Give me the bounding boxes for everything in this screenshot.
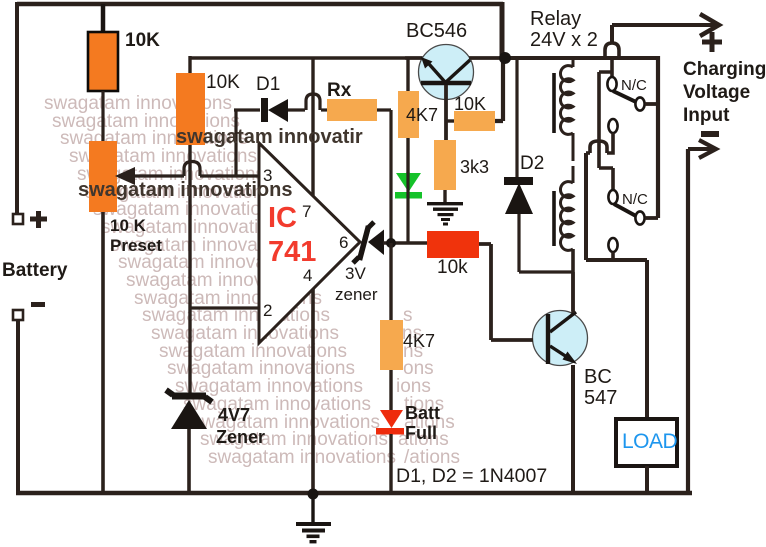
svg-text:Battery: Battery xyxy=(2,260,68,281)
svg-text:741: 741 xyxy=(268,236,316,268)
resistor R6 4K7 lower xyxy=(380,320,403,370)
wire: hop over rail xyxy=(605,43,619,58)
wire: D1 left lead xyxy=(234,108,260,111)
wire: D1 to Rx with hop over pin7 wire xyxy=(288,94,327,110)
wire: NC2 feed branch xyxy=(599,72,613,191)
wire: charging + input arrow xyxy=(612,14,719,42)
wire: R6 to LED xyxy=(389,370,392,410)
svg-text:Voltage: Voltage xyxy=(683,82,750,103)
svg-text:BC546: BC546 xyxy=(406,20,467,42)
svg-text:547: 547 xyxy=(584,387,617,409)
relay contact NC1 xyxy=(607,77,616,91)
wire: charging minus arrow xyxy=(688,140,716,158)
wire: coil link with gap xyxy=(572,133,575,183)
wire: battery minus to bottom rail xyxy=(16,320,20,493)
wire: into NC1 xyxy=(610,57,614,77)
svg-text:Input: Input xyxy=(683,105,730,126)
wire: pole1 to right bus xyxy=(645,102,658,106)
wire: Rx right lead down to node A xyxy=(377,110,391,243)
node: junction dot on rail xyxy=(499,52,511,64)
potentiometer 10K preset body xyxy=(89,141,117,212)
wire: node A down to R6 4K7 xyxy=(389,243,392,320)
svg-text:4K7: 4K7 xyxy=(403,331,435,351)
wire: left battery rail xyxy=(15,2,19,214)
node: ground junction dot xyxy=(308,489,319,500)
wire: rail to R3 4K7 upper xyxy=(406,58,409,91)
node: battery minus terminal xyxy=(13,310,23,320)
wire: top-right drop to junction xyxy=(500,2,505,58)
wire: top positive rail xyxy=(17,2,503,7)
svg-text:D2: D2 xyxy=(520,153,544,174)
relay pole contact 2 xyxy=(635,211,644,224)
LED batt full (red) xyxy=(376,410,404,435)
wire: preset bottom to ground rail xyxy=(101,212,105,493)
relay L2 core bar xyxy=(552,191,556,246)
resistor R5 3k3 xyxy=(434,140,456,190)
load box xyxy=(616,419,677,466)
wire: NO1 lead with hop over NC2 feed xyxy=(586,133,613,153)
svg-text:D1: D1 xyxy=(256,74,280,95)
relay L1 core bar xyxy=(552,73,556,133)
svg-text:Zener: Zener xyxy=(216,427,265,447)
op-amp U1 triangle xyxy=(259,143,360,343)
svg-text:10 K: 10 K xyxy=(110,216,147,235)
transistor Q2 internals xyxy=(548,312,577,364)
svg-text:Full: Full xyxy=(405,423,437,443)
rail through BC546 redrawn xyxy=(405,56,505,60)
svg-text:6: 6 xyxy=(339,233,348,252)
svg-text:10K: 10K xyxy=(454,94,486,114)
wire: op-amp pin 2 input xyxy=(190,306,259,309)
transistor Q1 internals xyxy=(421,57,471,83)
relay coil L1 xyxy=(560,58,573,134)
wire: R4 right up to junction xyxy=(495,58,503,121)
label: minus sign charging xyxy=(701,131,719,137)
resistor R2 10K vertical xyxy=(176,73,205,145)
svg-text:Preset: Preset xyxy=(110,236,162,255)
wire: D1 branch down to pin3 line xyxy=(234,110,237,176)
resistor R3 4K7 upper xyxy=(398,91,419,138)
resistor Rx xyxy=(327,99,377,121)
wire: R2 bottom / pin2 / zener chain vertical xyxy=(188,145,191,394)
svg-text:IC: IC xyxy=(268,202,297,234)
wire: 10K to Q1 base xyxy=(446,119,454,122)
wire: NO bus vertical xyxy=(584,153,588,260)
wire: lead to resistor R1 xyxy=(101,4,106,32)
LED green indicator xyxy=(395,173,422,199)
resistor R4 10K horizontal xyxy=(454,111,495,131)
svg-text:Batt: Batt xyxy=(405,403,440,423)
wire: zener to node A xyxy=(383,241,427,244)
transistor Q1 BC546 circle xyxy=(419,45,474,100)
label: plus sign battery xyxy=(30,211,47,228)
relay switch blade 2 xyxy=(614,204,636,216)
watermark light lines xyxy=(44,93,396,468)
wire: green LED to node A line xyxy=(406,172,409,243)
relay coil L2 xyxy=(560,182,573,251)
svg-text:10k: 10k xyxy=(437,257,468,278)
svg-text:zener: zener xyxy=(335,285,378,304)
relay contact NO2 xyxy=(608,238,617,252)
relay contact NO1 xyxy=(608,119,617,133)
relay switch blade 1 xyxy=(613,91,636,102)
wire: Q2 collector up xyxy=(571,272,575,313)
wire: NO2 lead down xyxy=(611,252,615,260)
svg-text:Relay: Relay xyxy=(530,8,581,30)
wiper arrowhead xyxy=(115,167,135,185)
wire: rail from R2 top (y58) xyxy=(190,56,505,59)
zener diode 3V at pin 6 xyxy=(353,222,384,263)
label: minus sign battery xyxy=(31,302,45,307)
wire: LED to bottom rail xyxy=(389,434,392,493)
transistor Q2 BC547 circle xyxy=(533,311,588,366)
wire: 4V7 to bottom rail xyxy=(187,429,191,493)
wire: R2 top lead xyxy=(188,56,191,73)
ground symbol bottom xyxy=(296,496,331,543)
svg-text:Rx: Rx xyxy=(327,80,352,101)
svg-text:D1, D2 = 1N4007: D1, D2 = 1N4007 xyxy=(396,465,547,487)
watermark right column fragments xyxy=(396,305,460,468)
resistor R1 10K (bordered orange) xyxy=(88,32,118,91)
svg-text:7: 7 xyxy=(302,202,311,221)
zener diode 4V7 xyxy=(166,390,212,429)
wire: D2 anode down and right xyxy=(519,214,573,272)
wire: 10k to Q2 base xyxy=(479,244,533,340)
svg-text:3V: 3V xyxy=(345,264,366,283)
wire: pin 4 to ground rail xyxy=(311,289,315,493)
wire: coil L2 bottom to collector junction xyxy=(571,249,575,311)
node A junction dot xyxy=(386,238,396,248)
svg-text:24V x 2: 24V x 2 xyxy=(530,29,598,51)
wire: load bottom to rail xyxy=(645,466,649,493)
resistor R7 10k red xyxy=(427,231,479,258)
svg-text:4: 4 xyxy=(303,266,312,285)
wire: bottom ground rail xyxy=(16,491,692,495)
relay pole contact 1 xyxy=(635,97,644,110)
wire: Q2 emitter to bottom rail xyxy=(571,365,575,493)
svg-text:N/C: N/C xyxy=(622,191,648,208)
wire: R1 to preset xyxy=(101,91,104,141)
ground symbol mid xyxy=(427,202,463,226)
wire: right rail down xyxy=(686,149,690,495)
svg-text:3k3: 3k3 xyxy=(460,157,489,177)
diode D1 xyxy=(261,98,268,122)
relay contact NC2 xyxy=(608,190,617,204)
wire: pole2 to right bus xyxy=(645,216,658,220)
diode D2 xyxy=(504,177,533,214)
wire: rail to D2 xyxy=(515,58,518,177)
label: plus sign charging xyxy=(702,32,722,52)
svg-text:10K: 10K xyxy=(125,30,160,51)
svg-text:4K7: 4K7 xyxy=(406,105,438,125)
wire: pin 7 to rail xyxy=(311,58,314,196)
svg-text:Charging: Charging xyxy=(683,59,766,80)
svg-text:swagatam innovations: swagatam innovations xyxy=(208,447,396,468)
wire: Q1 base down xyxy=(444,85,448,140)
wire: preset wiper to op-amp pin 3 with hop xyxy=(128,162,259,177)
svg-text:N/C: N/C xyxy=(621,77,647,94)
node: battery plus terminal xyxy=(13,214,23,224)
wire: R3 to green LED xyxy=(406,138,409,173)
svg-text:LOAD: LOAD xyxy=(622,430,678,453)
wire: right contact bus xyxy=(656,56,660,218)
svg-text:swagatam innovatir: swagatam innovatir xyxy=(176,126,363,148)
svg-text:2: 2 xyxy=(263,301,272,320)
wire: NO junction to load xyxy=(586,260,647,419)
wire: 3k3 to ground xyxy=(443,190,446,203)
svg-text:swagatam innovations: swagatam innovations xyxy=(78,179,293,201)
svg-text:BC: BC xyxy=(584,366,612,388)
svg-text:4V7: 4V7 xyxy=(218,405,250,425)
svg-text:10K: 10K xyxy=(206,72,240,93)
